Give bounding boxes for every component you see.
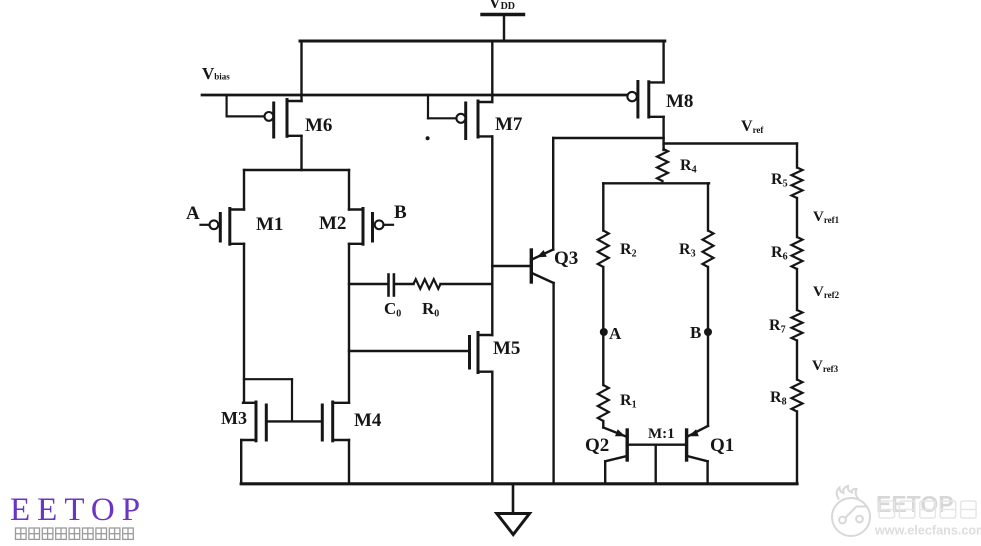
- transistor M5: [468, 337, 471, 369]
- wire: [552, 138, 554, 250]
- wire: [503, 15, 505, 42]
- svg-text:EETOP: EETOP: [10, 492, 147, 528]
- wire: [706, 461, 708, 484]
- svg-text:Q3: Q3: [554, 248, 578, 269]
- wire: [655, 445, 657, 484]
- svg-text:B: B: [394, 202, 407, 223]
- svg-text:B: B: [690, 323, 701, 342]
- wire: [552, 283, 554, 484]
- Vref wire: [664, 142, 797, 144]
- svg-text:M6: M6: [305, 115, 332, 136]
- wire: [243, 244, 245, 403]
- wire: [349, 350, 470, 352]
- transistor M2: [349, 208, 363, 210]
- wire: [226, 95, 228, 116]
- wire: [491, 136, 493, 335]
- watermark chinese overlay: [879, 501, 976, 518]
- wire: [244, 378, 292, 380]
- resistor R8: [792, 380, 803, 412]
- stray ink dot: [426, 136, 430, 140]
- watermark logo (elecfans): [832, 486, 870, 536]
- wire: [240, 440, 242, 484]
- svg-text:M:1: M:1: [648, 426, 675, 442]
- wire: [348, 244, 350, 403]
- svg-text:Q1: Q1: [710, 435, 734, 456]
- svg-text:M2: M2: [319, 213, 346, 234]
- transistor M4: [321, 405, 324, 440]
- svg-text:M4: M4: [354, 410, 382, 431]
- transistor M7: [478, 101, 492, 103]
- wire: [553, 137, 663, 139]
- wire: [348, 440, 350, 484]
- wire: [796, 269, 798, 310]
- resistor R2: [598, 231, 609, 268]
- svg-text:www.elecfans.com: www.elecfans.com: [874, 524, 981, 538]
- svg-text:M8: M8: [666, 91, 693, 112]
- svg-text:M1: M1: [256, 214, 283, 235]
- resistor R3: [703, 231, 714, 268]
- wire: [491, 372, 493, 484]
- wire: [395, 283, 414, 285]
- wire: [300, 41, 302, 101]
- input lead B wire: [384, 224, 394, 226]
- wire: [796, 412, 798, 484]
- svg-text:M3: M3: [221, 408, 247, 428]
- node B: [704, 328, 712, 336]
- transistor M3: [243, 402, 256, 404]
- ground: [512, 484, 515, 514]
- wire: [602, 421, 604, 428]
- svg-text:VDD: VDD: [489, 0, 515, 12]
- transistor Q3: [530, 250, 533, 282]
- wire: [348, 170, 350, 210]
- wire: [707, 267, 709, 426]
- wire: [243, 170, 245, 210]
- logo subtitle (chinese): [16, 528, 27, 539]
- gate wire: [266, 420, 322, 422]
- wire: [796, 198, 798, 237]
- resistor R7: [792, 310, 803, 341]
- wire: [441, 283, 493, 285]
- resistor R1: [598, 385, 609, 421]
- wire: [662, 117, 664, 150]
- svg-text:Q2: Q2: [585, 435, 609, 456]
- wire: [602, 267, 604, 385]
- svg-text:A: A: [186, 203, 200, 224]
- top supply rail wire: [300, 40, 665, 43]
- wire: [603, 182, 709, 184]
- wire: [349, 283, 387, 285]
- transistor Q2: [603, 428, 627, 437]
- wire: [602, 183, 604, 230]
- svg-text:A: A: [609, 324, 622, 343]
- wire: [244, 169, 349, 171]
- transistor M1: [230, 208, 244, 210]
- ground rail wire: [241, 482, 797, 485]
- wire: [427, 95, 429, 118]
- resistor R0: [414, 279, 441, 289]
- wire: [300, 136, 302, 170]
- resistor R6: [792, 237, 803, 269]
- Vbias rail wire: [202, 94, 628, 97]
- svg-text:M5: M5: [493, 338, 520, 359]
- input lead A wire: [201, 224, 210, 226]
- transistor M8: [662, 41, 664, 82]
- node A: [600, 328, 608, 336]
- wire: [604, 461, 606, 484]
- wire: [492, 265, 530, 267]
- wire: [707, 183, 709, 230]
- wire: [796, 341, 798, 380]
- capacitor C0: [387, 275, 390, 296]
- transistor Q1: [687, 426, 708, 437]
- wire: [796, 144, 798, 168]
- resistor R4: [657, 149, 668, 182]
- resistor R5: [792, 168, 803, 199]
- VDD supply bar: [482, 13, 524, 16]
- base wire: [627, 444, 686, 446]
- svg-text:M7: M7: [495, 114, 523, 135]
- transistor M6: [287, 100, 302, 102]
- wire: [491, 41, 493, 102]
